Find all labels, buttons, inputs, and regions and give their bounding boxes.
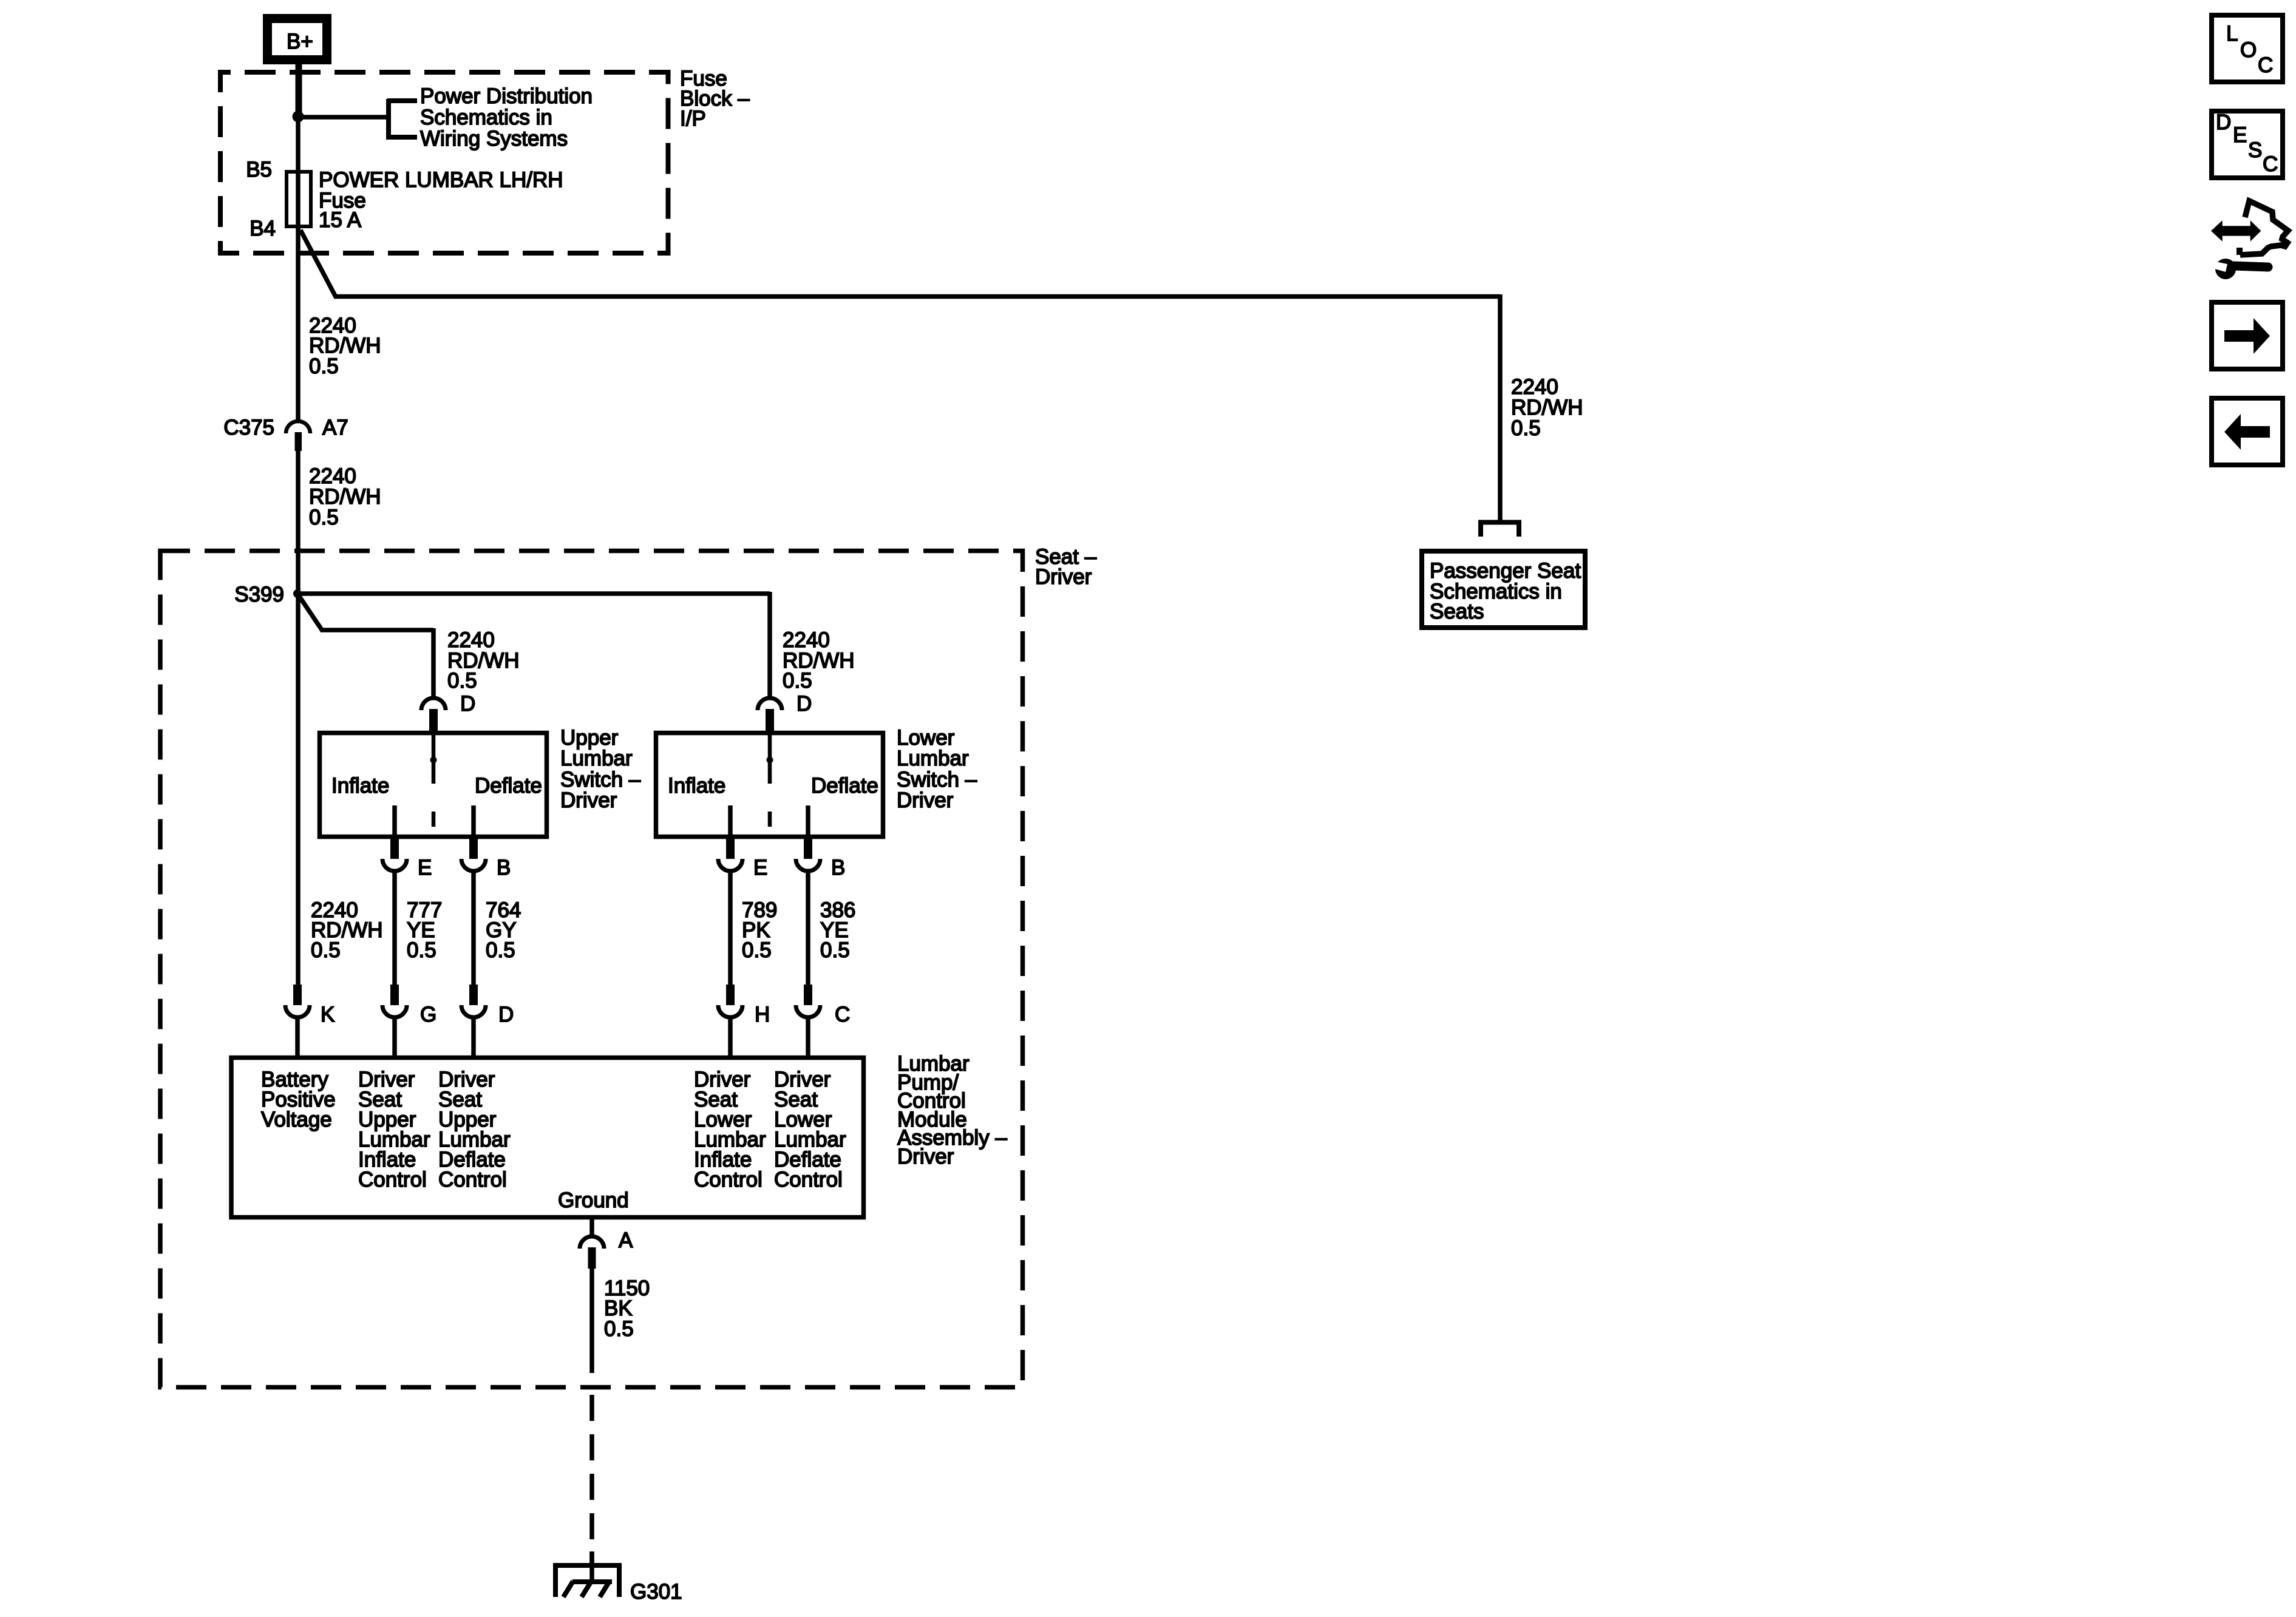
svg-text:D: D <box>460 692 475 716</box>
svg-text:B+: B+ <box>287 30 313 53</box>
svg-text:Control: Control <box>358 1168 427 1192</box>
icon swap arrow with wrench <box>2210 201 2288 279</box>
lower switch deflate contact <box>806 805 810 837</box>
connector pin G module <box>382 985 407 1057</box>
svg-text:Control: Control <box>774 1168 843 1192</box>
svg-text:B4: B4 <box>250 217 276 240</box>
svg-text:Wiring Systems: Wiring Systems <box>420 127 568 151</box>
svg-text:Deflate: Deflate <box>475 774 542 798</box>
wire module pin A ground lead <box>589 1269 594 1373</box>
svg-text:D: D <box>796 692 812 716</box>
svg-text:Ground: Ground <box>558 1188 629 1212</box>
wire C375 down through S399 to pump module pin K <box>296 450 301 987</box>
svg-text:Driver: Driver <box>897 1145 954 1168</box>
svg-text:Inflate: Inflate <box>668 774 725 798</box>
svg-text:Driver: Driver <box>1035 565 1092 589</box>
Passenger Seat Schematics reference box <box>1422 551 1585 628</box>
icon DESC box <box>2212 110 2283 178</box>
ground G301 symbol <box>553 1551 622 1597</box>
connector pin D upper switch <box>421 698 446 733</box>
upper switch deflate contact <box>471 805 476 837</box>
Lower Lumbar Switch Driver box <box>656 733 883 837</box>
svg-text:0.5: 0.5 <box>820 938 850 962</box>
connector pin A module ground <box>580 1219 604 1269</box>
svg-text:I/P: I/P <box>680 107 706 131</box>
svg-text:L: L <box>2226 22 2238 46</box>
svg-text:Control: Control <box>694 1168 763 1192</box>
label POWER LUMBAR LH/RH Fuse 15 A <box>319 168 563 232</box>
svg-text:C: C <box>2258 53 2273 77</box>
wire horizontal run to passenger seat feed <box>334 294 1500 299</box>
label circuit 2240 RD/WH 0.5 (upper switch feed) <box>447 628 520 693</box>
svg-text:Voltage: Voltage <box>261 1108 332 1131</box>
svg-text:0.5: 0.5 <box>604 1317 634 1341</box>
wire upper switch E to module G <box>392 872 397 987</box>
svg-text:0.5: 0.5 <box>311 938 341 962</box>
label Battery Positive Voltage <box>261 1068 336 1131</box>
svg-text:Lumbar: Lumbar <box>560 747 633 770</box>
label Driver Seat Upper Lumbar Inflate Control <box>358 1068 430 1192</box>
svg-text:B: B <box>831 856 845 880</box>
wire lower switch E to module H <box>728 872 733 987</box>
label circuit 386 YE 0.5 <box>820 898 855 962</box>
passenger seat connector staple <box>1481 523 1519 537</box>
svg-text:0.5: 0.5 <box>309 354 339 378</box>
label Fuse Block I/P <box>680 67 750 131</box>
svg-text:Seats: Seats <box>1430 600 1484 623</box>
label Upper Lumbar Switch Driver <box>560 726 641 812</box>
svg-text:Driver: Driver <box>897 788 954 812</box>
wire junction to reference bracket <box>298 115 387 120</box>
wire fuse B4 down to C375 <box>296 228 301 422</box>
wire diagonal branch from fuse B4 <box>301 230 336 297</box>
splice S399 <box>293 589 302 598</box>
connector C375 pin A7 <box>286 421 310 451</box>
svg-text:O: O <box>2240 38 2257 62</box>
label circuit 2240 RD/WH 0.5 (below C375) <box>309 464 381 529</box>
svg-text:0.5: 0.5 <box>742 938 772 962</box>
label Passenger Seat Schematics in Seats <box>1430 559 1581 623</box>
svg-text:Inflate: Inflate <box>331 774 389 798</box>
svg-text:Schematics in: Schematics in <box>420 106 552 129</box>
upper switch wiper <box>430 733 437 827</box>
svg-text:C: C <box>2263 152 2278 176</box>
connector pin D lower switch <box>758 698 782 733</box>
svg-text:Deflate: Deflate <box>811 774 878 798</box>
label circuit 764 GY 0.5 <box>486 898 521 962</box>
label Lower Lumbar Switch Driver <box>897 726 977 812</box>
lower switch inflate contact <box>728 805 733 837</box>
svg-text:B5: B5 <box>246 158 272 181</box>
Upper Lumbar Switch Driver box <box>320 733 547 837</box>
svg-text:Power Distribution: Power Distribution <box>420 84 593 108</box>
connector pin B lower switch <box>796 836 820 871</box>
Seat Driver dashed box <box>160 551 1023 1388</box>
svg-text:G: G <box>420 1003 436 1026</box>
svg-text:H: H <box>755 1003 770 1026</box>
connector pin H module <box>718 985 742 1057</box>
svg-text:B: B <box>497 856 511 880</box>
label Driver Seat Lower Lumbar Deflate Control <box>774 1068 846 1192</box>
label circuit 2240 RD/WH 0.5 (passenger feed) <box>1511 375 1583 440</box>
lower switch wiper <box>767 733 773 827</box>
svg-text:0.5: 0.5 <box>407 938 436 962</box>
label Lumbar Pump Control Module Assembly Driver <box>897 1052 1007 1168</box>
upper switch inflate contact <box>392 805 397 837</box>
connector pin E lower switch <box>718 836 742 871</box>
wire B+ to junction <box>296 59 302 115</box>
label circuit 777 YE 0.5 <box>407 898 442 962</box>
wire ground lead dashed continuation <box>589 1395 594 1565</box>
label circuit 2240 RD/WH 0.5 (fuse output) <box>309 314 381 378</box>
svg-text:0.5: 0.5 <box>783 669 812 693</box>
icon forward arrow box <box>2212 302 2283 369</box>
svg-text:D: D <box>498 1003 514 1026</box>
wire S399 to upper lumbar switch pin D <box>299 595 433 699</box>
svg-text:Driver: Driver <box>560 788 617 812</box>
svg-text:E: E <box>2233 123 2247 147</box>
svg-text:0.5: 0.5 <box>447 669 477 693</box>
label circuit 2240 RD/WH 0.5 (module feed) <box>311 898 383 962</box>
connector pin C module <box>796 985 820 1057</box>
svg-text:S399: S399 <box>234 583 284 606</box>
bracket for Power Distribution reference <box>387 99 417 140</box>
svg-text:0.5: 0.5 <box>486 938 515 962</box>
svg-text:C375: C375 <box>223 416 274 439</box>
fuse block I/P dashed box <box>220 72 668 253</box>
svg-text:S: S <box>2248 138 2262 162</box>
battery feed B+ terminal box <box>268 19 327 60</box>
fuse POWER LUMBAR LH/RH 15A <box>287 171 311 229</box>
svg-text:K: K <box>321 1003 335 1026</box>
wire upper switch B to module D <box>471 872 476 987</box>
label Driver Seat Lower Lumbar Inflate Control <box>694 1068 766 1192</box>
svg-text:A7: A7 <box>322 416 348 439</box>
svg-text:E: E <box>418 856 432 880</box>
wire lower switch B to module C <box>806 872 810 987</box>
svg-text:D: D <box>2216 110 2231 134</box>
svg-text:0.5: 0.5 <box>309 506 339 529</box>
svg-text:Lumbar: Lumbar <box>897 747 969 770</box>
junction node in fuse block <box>293 111 304 123</box>
wire down to passenger seat connector <box>1498 294 1503 520</box>
connector pin E upper switch <box>382 836 407 871</box>
svg-text:0.5: 0.5 <box>1511 416 1541 440</box>
connector pin K module <box>285 985 310 1057</box>
svg-text:C: C <box>835 1003 850 1026</box>
Lumbar Pump Control Module Assembly box <box>231 1058 864 1218</box>
label circuit 2240 RD/WH 0.5 (lower switch feed) <box>783 628 855 693</box>
label Seat Driver <box>1035 545 1097 589</box>
icon back arrow box <box>2212 398 2283 465</box>
svg-text:E: E <box>753 856 767 880</box>
connector pin B upper switch <box>461 836 486 871</box>
label circuit 1150 BK 0.5 <box>604 1276 650 1341</box>
label Driver Seat Upper Lumbar Deflate Control <box>438 1068 511 1192</box>
svg-text:G301: G301 <box>630 1580 682 1604</box>
label circuit 789 PK 0.5 <box>742 898 777 962</box>
svg-text:15 A: 15 A <box>319 208 362 232</box>
svg-text:Control: Control <box>438 1168 507 1192</box>
wire S399 to lower lumbar switch pin D <box>297 592 770 699</box>
connector pin D module <box>461 985 486 1057</box>
wire junction to fuse <box>296 117 301 172</box>
icon LOC box <box>2212 15 2283 82</box>
label Power Distribution Schematics in Wiring Systems <box>420 84 593 151</box>
svg-text:A: A <box>619 1229 633 1252</box>
